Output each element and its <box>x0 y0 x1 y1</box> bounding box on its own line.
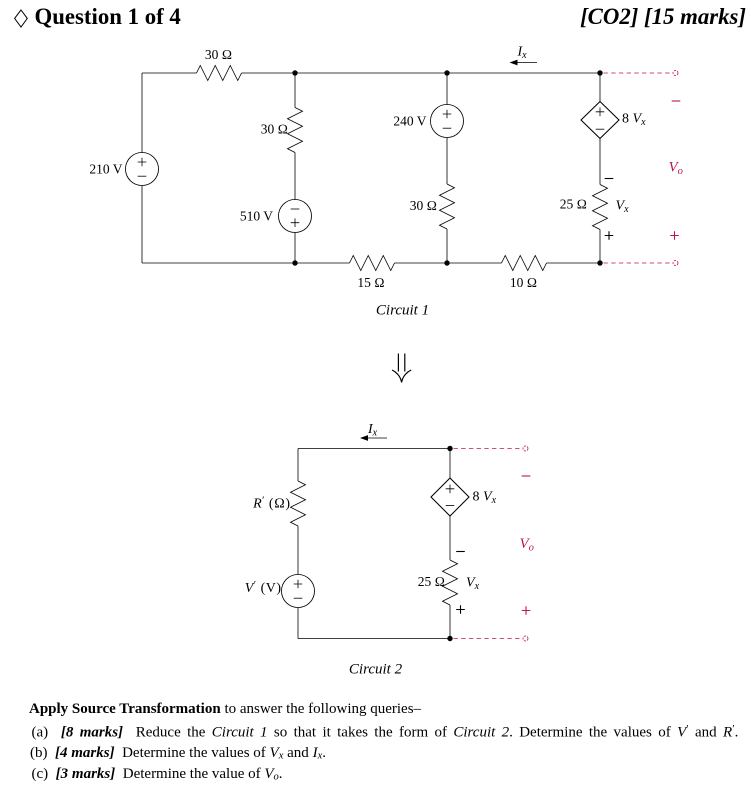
wire: C1 branch2 middle <box>294 153 296 200</box>
dependent source 8Vx diamond C1 <box>581 102 619 139</box>
resistor 10ohm bottom <box>502 256 547 271</box>
wire: C1 bottom rail seg3 <box>547 262 601 264</box>
wire: C2 left bottom <box>297 608 299 639</box>
svg-text:Circuit 1: Circuit 1 <box>376 303 429 319</box>
svg-text:10 Ω: 10 Ω <box>510 275 537 290</box>
svg-text:Vx: Vx <box>466 576 480 593</box>
node C1 top-a <box>292 70 297 75</box>
svg-text:Circuit 2: Circuit 2 <box>349 662 403 678</box>
pink minus C2 <box>522 475 531 477</box>
wire: C1 left rail top segment <box>141 73 143 153</box>
wire: C1 branch3 top <box>446 73 448 105</box>
dashed probe C1 top <box>604 72 672 74</box>
node C1 bottom-b <box>444 260 449 265</box>
polarity minus for Vx C1 <box>605 178 614 180</box>
current arrow Ix C2 <box>367 437 387 439</box>
svg-text:25 Ω: 25 Ω <box>560 197 587 212</box>
item (c) <box>32 766 283 783</box>
polarity minus for Vx C2 <box>456 551 465 553</box>
wire: C1 branch3 bottom <box>446 229 448 263</box>
svg-text:R′ (Ω): R′ (Ω) <box>252 496 290 512</box>
wire: C1 branch4 middle <box>599 139 601 185</box>
wire: C1 branch4 top <box>599 73 601 102</box>
open terminal C1 bottom <box>673 261 678 266</box>
svg-text:30 Ω: 30 Ω <box>410 198 437 213</box>
voltage source V1 210V circle <box>126 153 159 186</box>
header diamond bullet <box>0 0 40 34</box>
resistor 30ohm branch2 vertical <box>288 108 303 153</box>
item (a) <box>32 723 739 742</box>
svg-text:Ix: Ix <box>517 45 528 62</box>
node C2 bottom-right <box>447 636 452 641</box>
wire: C2 left top <box>297 449 299 482</box>
wire: C1 left rail bottom segment <box>141 186 143 264</box>
item (b) <box>30 745 326 762</box>
svg-text:210 V: 210 V <box>89 162 122 177</box>
dashed probe C1 bottom <box>604 262 672 264</box>
polarity plus for Vx C1 <box>605 231 614 240</box>
wire: C1 branch2 bottom <box>294 233 296 264</box>
big double arrow between circuits <box>392 354 411 383</box>
pink plus C2 <box>522 606 531 615</box>
svg-text:V′ (V): V′ (V) <box>245 580 282 596</box>
svg-text:15 Ω: 15 Ω <box>357 275 384 290</box>
wire: C1 branch3 middle <box>446 138 448 185</box>
resistor 25ohm C2 vertical <box>443 560 458 605</box>
wire: C1 bottom rail seg2 <box>395 262 502 264</box>
resistor Rprime vertical <box>291 481 306 526</box>
voltage source Vprime circle <box>282 575 315 608</box>
resistor 15ohm bottom <box>350 256 395 271</box>
svg-text:25 Ω: 25 Ω <box>418 574 445 589</box>
voltage source 510V circle <box>279 200 312 233</box>
resistor 25ohm C1 vertical <box>593 185 608 230</box>
wire: C2 right middle <box>449 516 451 560</box>
node C1 bottom-a <box>292 260 297 265</box>
wire: C2 top rail <box>298 448 450 450</box>
svg-text:Vo: Vo <box>520 536 534 554</box>
pink plus C1 <box>670 231 679 240</box>
wire: C2 bottom rail <box>298 638 450 640</box>
wire: C2 right bottom <box>449 605 451 639</box>
wire: C2 left middle <box>297 526 299 575</box>
svg-text:240 V: 240 V <box>393 114 426 129</box>
current arrow Ix C1 <box>517 62 538 64</box>
open terminal C1 top <box>673 71 678 76</box>
dashed probe C2 bottom <box>454 638 522 640</box>
open terminal C2 top <box>523 446 528 451</box>
wire: C1 branch4 bottom <box>599 230 601 264</box>
dependent source 8Vx diamond C2 <box>431 478 469 516</box>
voltage source 240V circle <box>431 105 464 138</box>
header left: Question 1 of 4 <box>35 4 181 30</box>
resistor 30ohm branch3 vertical <box>440 184 455 229</box>
svg-text:30 Ω: 30 Ω <box>261 122 288 137</box>
wire: C1 top rail right of R1 <box>242 72 601 74</box>
wire: C2 right top <box>449 449 451 479</box>
wire: C1 top rail left <box>142 72 197 74</box>
resistor 30ohm horizontal top <box>197 66 242 81</box>
pink minus C1 <box>672 100 681 102</box>
dashed probe C2 top <box>454 448 522 450</box>
svg-text:510 V: 510 V <box>240 209 273 224</box>
polarity plus for Vx C2 <box>456 605 465 614</box>
svg-text:Vo: Vo <box>669 160 683 178</box>
wire: C1 bottom rail seg1 <box>142 262 350 264</box>
svg-text:30 Ω: 30 Ω <box>205 47 232 62</box>
node C1 top-right <box>597 70 602 75</box>
node C1 bottom-right <box>597 260 602 265</box>
svg-text:8 Vx: 8 Vx <box>622 112 646 129</box>
svg-text:Ix: Ix <box>367 422 378 439</box>
svg-text:8 Vx: 8 Vx <box>473 490 497 507</box>
paragraph: Apply Source Transformation <box>29 701 421 718</box>
header right: [CO2] [15 marks] <box>580 4 746 30</box>
node C2 top-right <box>447 446 452 451</box>
svg-text:Vx: Vx <box>616 199 630 216</box>
wire: C1 branch2 top <box>294 73 296 108</box>
node C1 top-b <box>444 70 449 75</box>
open terminal C2 bottom <box>523 636 528 641</box>
